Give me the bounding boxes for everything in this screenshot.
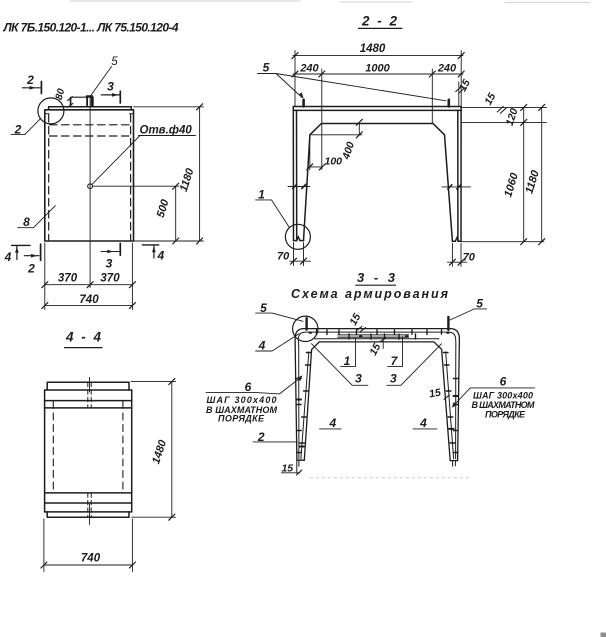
label 4 left leg — [328, 416, 336, 430]
section 2-2 slab outline — [293, 107, 461, 135]
svg-text:1180: 1180 — [178, 166, 197, 193]
section mark 3 top — [107, 79, 114, 93]
dim 70 left leg — [290, 243, 311, 266]
label 3 left with leader — [355, 372, 362, 386]
view plan: main body outline — [45, 110, 134, 241]
section 2-2 title — [361, 14, 399, 29]
scan fold artifact line — [310, 477, 470, 479]
svg-text:4: 4 — [328, 416, 336, 430]
svg-text:1060: 1060 — [502, 171, 521, 199]
label 1 with leader (3-3) — [344, 354, 351, 368]
label 5 left (3-3) — [260, 301, 267, 315]
embed tick item 5 right — [447, 317, 449, 330]
dim 15 mid slab (3-3) — [367, 341, 383, 357]
dim 500 view plan — [175, 186, 177, 241]
svg-text:70: 70 — [463, 252, 476, 264]
svg-text:3: 3 — [390, 372, 397, 386]
view plan: hidden dashed edges — [49, 115, 131, 241]
title text ЛК marks — [3, 21, 179, 35]
dim 400 chamfer vertical — [312, 122, 363, 135]
svg-text:ЛК 7Б.150.120-1... ЛК 75.150.1: ЛК 7Б.150.120-1... ЛК 75.150.120-4 — [3, 21, 179, 35]
section 4-4 hidden dashed lines — [53, 402, 123, 493]
dim 70 right leg — [448, 243, 467, 266]
dim 1060 — [523, 122, 525, 241]
dim 15 top right corner — [457, 77, 473, 93]
svg-text:4: 4 — [4, 250, 12, 264]
section mark 4 left — [4, 250, 12, 264]
bar item 7 double line — [338, 335, 409, 337]
svg-text:ПОРЯДКЕ: ПОРЯДКЕ — [218, 414, 265, 424]
section 4-4 outline — [45, 382, 132, 517]
embed tick item 5 left — [305, 318, 307, 329]
svg-text:4: 4 — [156, 249, 164, 263]
dim 15 right of slab — [482, 91, 498, 107]
svg-text:6: 6 — [500, 375, 507, 389]
dim 740 — [45, 289, 133, 310]
svg-text:4 - 4: 4 - 4 — [65, 330, 103, 345]
scan artifact bottom-right gray block — [601, 633, 606, 637]
label 6 right with note — [500, 375, 507, 389]
dim 15 bottom left (3-3) — [281, 463, 293, 475]
rebar mesh item 3 top — [298, 332, 456, 346]
svg-text:4: 4 — [258, 338, 266, 352]
detail circle 3-3 — [293, 316, 318, 341]
svg-text:4: 4 — [419, 416, 427, 430]
svg-text:1180: 1180 — [523, 168, 542, 195]
section 2-2 left leg — [293, 107, 310, 241]
section mark 3 bottom — [106, 257, 113, 271]
svg-text:15: 15 — [347, 311, 363, 327]
svg-text:5: 5 — [111, 56, 118, 68]
svg-text:ПОРЯДКЕ: ПОРЯДКЕ — [485, 410, 526, 420]
svg-text:15: 15 — [367, 341, 383, 357]
dim 1180 view plan — [134, 107, 204, 241]
section 4-4 center dashed pair — [88, 382, 91, 517]
dim 100 chamfer — [310, 137, 323, 170]
label 4 top-left (3-3) — [258, 338, 266, 352]
section 4-4 title — [65, 330, 103, 345]
svg-text:370: 370 — [58, 273, 78, 285]
svg-text:3: 3 — [355, 372, 362, 386]
leg joint break marks — [288, 186, 471, 188]
dim 370+370 — [45, 243, 133, 310]
view plan: peg item 5 — [87, 96, 93, 106]
svg-text:500: 500 — [155, 197, 172, 219]
svg-text:3 - 3: 3 - 3 — [357, 270, 398, 285]
svg-text:15: 15 — [482, 91, 498, 107]
right extension lines (2-2) — [461, 107, 547, 241]
svg-text:5: 5 — [263, 61, 270, 75]
svg-text:3: 3 — [106, 257, 113, 271]
label 8 with leader — [23, 215, 30, 229]
detail circle leg bottom — [285, 224, 310, 249]
detail circle on corner — [38, 98, 64, 124]
svg-text:Отв.ф40: Отв.ф40 — [140, 125, 193, 137]
section mark 2 bottom — [27, 261, 35, 275]
embed ticks item 5 on slab (2-2) — [304, 100, 449, 107]
dim 1180 (2-2) — [541, 107, 543, 241]
section 4-4 centerline ticks — [89, 377, 91, 524]
svg-text:400: 400 — [340, 140, 357, 161]
label 5 with leader — [111, 56, 118, 68]
svg-text:3: 3 — [107, 79, 114, 93]
label 4 right leg — [419, 416, 427, 430]
dim 15 right leg (3-3) — [428, 387, 442, 401]
svg-text:240: 240 — [299, 63, 319, 75]
svg-text:70: 70 — [277, 251, 290, 263]
section mark 2 top — [26, 73, 34, 87]
dim 120 — [523, 107, 525, 122]
label 3 right with leader — [390, 372, 397, 386]
svg-text:8: 8 — [23, 215, 30, 229]
stirrup ticks left leg — [297, 353, 312, 453]
svg-text:370: 370 — [100, 273, 120, 285]
svg-text:1000: 1000 — [365, 63, 390, 75]
dim 1480 (4-4) — [131, 382, 176, 518]
label Отв.Ф40 with leader — [140, 125, 193, 137]
hole Отв.Ф40 — [88, 184, 93, 189]
scan artifact top edge — [70, 1, 590, 3]
section 3-3 title — [357, 270, 398, 285]
svg-text:240: 240 — [437, 63, 457, 75]
svg-text:Схема армирования: Схема армирования — [291, 287, 449, 301]
dim 15 top (3-3) — [347, 311, 363, 327]
label 5 right (3-3) — [476, 297, 483, 311]
svg-text:120: 120 — [504, 107, 521, 128]
leg rebars right — [446, 345, 456, 466]
view plan: tenon on top — [71, 97, 93, 106]
svg-text:1480: 1480 — [360, 43, 386, 55]
leg rebars left — [297, 346, 309, 473]
label 5 with two leaders (2-2) — [263, 61, 270, 75]
svg-text:1: 1 — [258, 188, 265, 202]
stirrup ticks slab — [310, 330, 449, 339]
dim 80 — [54, 87, 68, 101]
label 1 with leader (2-2) — [258, 188, 265, 202]
svg-text:2: 2 — [27, 261, 35, 275]
dim 1480 (2-2) — [293, 51, 463, 107]
svg-text:740: 740 — [79, 294, 99, 306]
view plan: centerline — [89, 98, 91, 288]
svg-text:ШАГ 300х400: ШАГ 300х400 — [207, 395, 277, 405]
svg-text:740: 740 — [81, 553, 101, 565]
label 2 of detail circle — [14, 123, 22, 137]
label 6 left with note — [245, 380, 252, 394]
svg-text:15: 15 — [428, 387, 442, 401]
label 7 with leader (3-3) — [391, 354, 399, 368]
svg-text:6: 6 — [245, 380, 252, 394]
caption Схема армирования — [291, 287, 449, 301]
section 3-3 outer outline — [295, 329, 459, 461]
label 2 with leader (3-3) — [257, 430, 265, 444]
section 2-2 right leg — [445, 107, 462, 242]
svg-text:2: 2 — [26, 73, 34, 87]
section mark 4 right — [156, 249, 164, 263]
view plan: top plate — [49, 107, 132, 110]
svg-text:ШАГ 300х400: ШАГ 300х400 — [473, 390, 533, 400]
svg-text:2 - 2: 2 - 2 — [361, 14, 399, 29]
svg-text:1480: 1480 — [150, 438, 169, 466]
dim 740 (4-4) — [44, 519, 132, 572]
dim 240+1000+240 (2-2) — [293, 69, 463, 170]
stirrup ticks right leg — [443, 353, 458, 453]
